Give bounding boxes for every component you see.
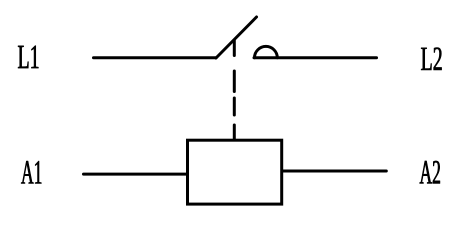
wire A1 lead [84,173,188,176]
wire L1 lead [94,56,217,59]
wire A2 lead [282,170,386,173]
wire L2 lead [254,56,377,59]
node L2 [421,47,441,70]
mechanical link (dashed) dash 3 [233,98,236,115]
mechanical link (dashed) dash 2 [233,71,236,92]
node L1 [18,46,38,68]
node A2 [420,161,440,184]
coil (operating coil rectangle) [188,140,282,204]
contact blade (NO main contact) [216,17,257,58]
mechanical link (dashed) dash 1 [233,41,236,56]
mechanical link (dashed) dash 4 [233,125,236,139]
contactor arc symbol (semicircle) [255,46,278,57]
node A1 [21,161,41,183]
